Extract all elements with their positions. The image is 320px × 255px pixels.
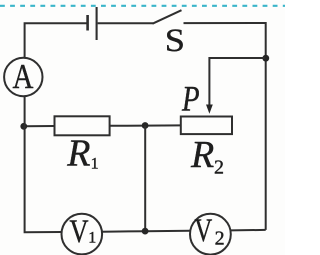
svg-text:2: 2 [214, 156, 224, 178]
svg-text:1: 1 [88, 229, 96, 246]
svg-text:V: V [194, 213, 212, 249]
wire (battery to switch) [98, 22, 153, 24]
switch S [153, 10, 185, 58]
resistor R1 [55, 116, 110, 135]
svg-text:R: R [66, 133, 90, 175]
node (junction between R1 and R2) [142, 122, 149, 129]
wire (top-left corner: ammeter to battery) [25, 23, 87, 58]
wire (left wire to R1) [25, 125, 55, 127]
voltmeter V1 [62, 214, 103, 255]
wire (bottom right: V2 to right corner) [231, 229, 266, 232]
svg-text:V: V [69, 214, 89, 250]
wire (R1 to R2) [110, 124, 181, 126]
svg-text:P: P [181, 80, 200, 120]
voltmeter V2 [190, 213, 231, 255]
node (left T junction) [20, 123, 27, 130]
svg-text:1: 1 [91, 156, 99, 173]
svg-text:R: R [190, 134, 214, 176]
svg-text:2: 2 [215, 228, 225, 250]
node (junction on right wire) [262, 55, 269, 62]
battery B1 [88, 7, 97, 40]
resistor R2 (rheostat body) [181, 117, 232, 135]
label R1 [66, 133, 98, 175]
wire (bottom middle: V1 to V2) [102, 230, 190, 233]
wire (left side down to bottom, to V1) [25, 96, 62, 232]
node (bottom T junction) [142, 228, 149, 235]
wire (switch to top-right corner, down right side) [184, 23, 266, 230]
svg-text:S: S [165, 22, 185, 59]
wiper arrow of rheostat [206, 105, 213, 114]
wire (wiper feed from right wire) [209, 58, 264, 106]
wire (middle vertical) [144, 126, 146, 232]
ammeter A [4, 58, 42, 97]
svg-text:A: A [13, 58, 34, 96]
label R2 [190, 134, 224, 178]
